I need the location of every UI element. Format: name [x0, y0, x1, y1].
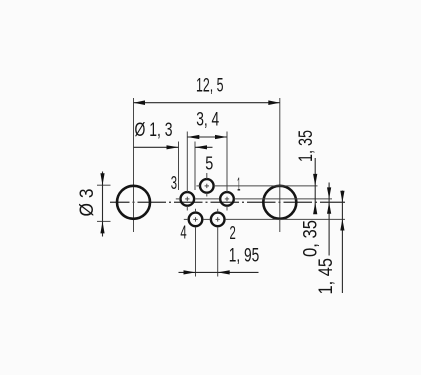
contact pin 1 circle	[195, 192, 233, 210]
svg-text:1, 95: 1, 95	[229, 246, 259, 267]
dimension 1,45 line with arrows	[340, 191, 344, 294]
svg-text:Ø 1, 3: Ø 1, 3	[135, 120, 173, 141]
pin label 5	[205, 153, 213, 173]
Ø1,3 tangent extension line left	[178, 142, 180, 191]
svg-text:1: 1	[237, 175, 240, 195]
right mounting hole vertical centerline / extension line	[279, 98, 281, 232]
svg-text:4: 4	[180, 222, 186, 242]
dimension 0,35 line with arrows	[327, 183, 331, 256]
pins 3/1 row extension line to right	[234, 198, 332, 200]
Ø3 dimension extension tick bottom	[97, 220, 111, 222]
mounting hole right Ø3	[263, 186, 296, 219]
pin label 2	[230, 223, 236, 243]
svg-text:Ø 3: Ø 3	[77, 189, 98, 217]
dimension text 0,35 vertical	[301, 220, 322, 257]
Ø3 dimension extension tick top	[97, 184, 111, 186]
dimension text 12,5	[196, 76, 224, 97]
dimension text 1,95	[229, 246, 259, 267]
contact pin 4 circle	[184, 209, 203, 226]
svg-text:1, 45: 1, 45	[316, 258, 337, 295]
pins 4/2 row extension line to right	[225, 218, 345, 220]
svg-text:0, 35: 0, 35	[301, 220, 322, 257]
dimension 3,4 extension line from pin 3	[186, 132, 188, 193]
svg-text:3, 4: 3, 4	[196, 110, 219, 131]
dimension 1,95 extension line from pin 4	[195, 227, 197, 277]
left mounting hole vertical centerline / extension line	[133, 98, 135, 232]
pin label 3	[171, 173, 177, 193]
dimension text 1,35 vertical	[296, 130, 317, 162]
dimension text 3,4	[196, 110, 219, 131]
dimension text Ø 3 vertical	[77, 189, 98, 217]
dimension 1,95 line with arrows	[179, 270, 259, 274]
svg-text:2: 2	[230, 223, 236, 243]
dimension 1,35 line with arrows	[313, 158, 317, 214]
contact pin 2 circle	[203, 209, 224, 226]
Ø1,3 tangent extension line right	[194, 142, 196, 191]
svg-text:12, 5: 12, 5	[196, 76, 224, 97]
pin 5 row extension line to right	[214, 185, 318, 187]
pin label 1	[237, 175, 240, 195]
mounting hole left Ø3	[117, 186, 150, 219]
contact pin 5 circle	[196, 173, 213, 197]
dimension 3,4 line with arrows	[187, 135, 227, 139]
dimension 12,5 line with arrows	[134, 100, 280, 105]
dimension text Ø 1,3	[135, 120, 173, 141]
Ø3 dimension line with arrows	[100, 172, 104, 237]
dimension 3,4 extension line from pin 1	[226, 132, 228, 193]
svg-text:1, 35: 1, 35	[296, 130, 317, 162]
svg-text:5: 5	[205, 153, 213, 173]
contact pin 3 circle	[176, 192, 194, 210]
Ø1,3 leader line with arrows	[134, 145, 213, 149]
dimension 1,95 extension line from pin 2	[217, 227, 219, 277]
dimension text 1,45 vertical	[316, 258, 337, 295]
svg-text:3: 3	[171, 173, 177, 193]
pin label 4	[180, 222, 186, 242]
main horizontal centerline	[110, 201, 345, 203]
